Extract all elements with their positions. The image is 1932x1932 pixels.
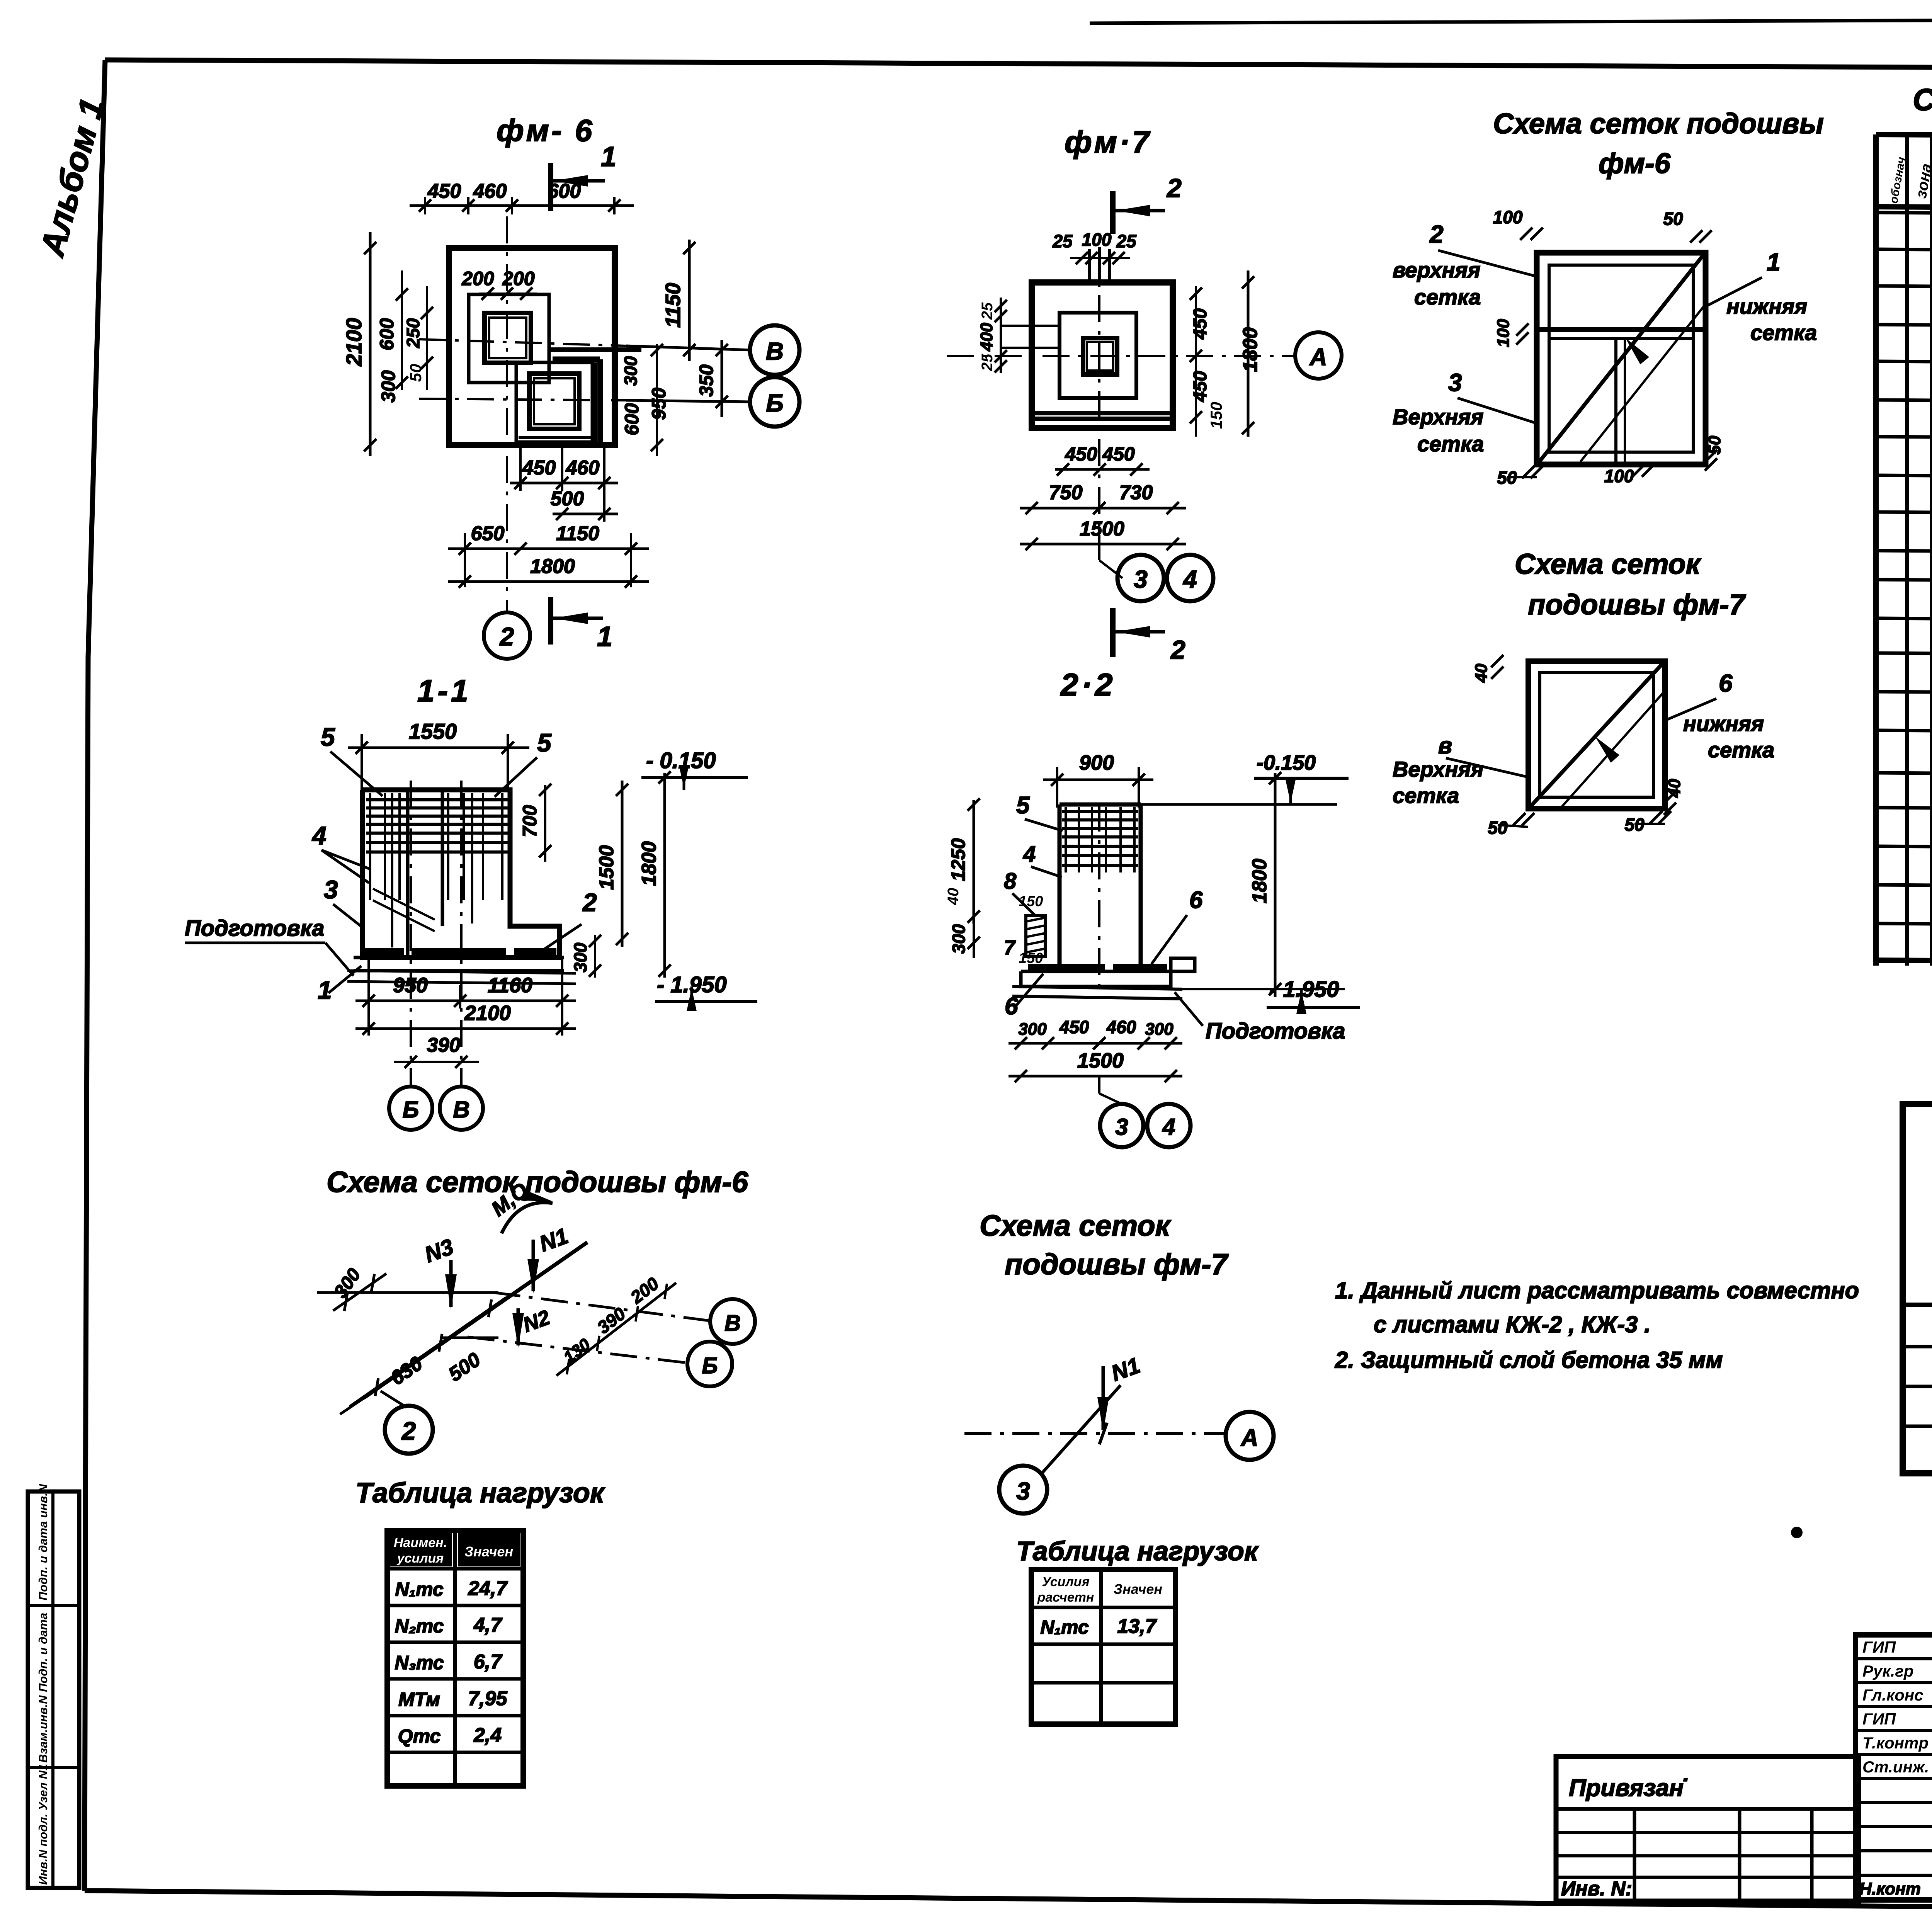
fm-7 axis circle 3 (1117, 555, 1164, 601)
section 2-2 bottom dimensions (1009, 1017, 1182, 1104)
section 1-1 body outline (347, 790, 576, 984)
svg-text:ГИП: ГИП (1862, 1638, 1896, 1656)
svg-text:сетка: сетка (1708, 738, 1774, 762)
svg-text:200: 200 (502, 268, 535, 289)
svg-text:фм·7: фм·7 (1065, 125, 1151, 159)
mesh scheme fm-7 dim ticks (1472, 655, 1684, 838)
fm-7 section mark 2 bottom (1113, 608, 1185, 665)
svg-text:фм- 6: фм- 6 (497, 113, 594, 148)
svg-text:950: 950 (648, 388, 670, 420)
svg-text:100: 100 (1082, 230, 1112, 250)
svg-text:Н.конт: Н.конт (1859, 1879, 1921, 1898)
mesh scheme fm-6 dim ticks (1493, 207, 1724, 488)
svg-text:900: 900 (1079, 751, 1114, 774)
section 1-1 axis dashed (411, 781, 461, 1086)
svg-text:450: 450 (1102, 443, 1135, 465)
section 1-1 right dimensions (519, 771, 671, 978)
svg-text:200: 200 (461, 268, 494, 289)
svg-text:N₁тс: N₁тс (395, 1578, 444, 1600)
svg-text:4: 4 (1023, 842, 1036, 867)
svg-text:150: 150 (1019, 950, 1043, 966)
svg-text:5: 5 (537, 728, 552, 757)
svg-text:450: 450 (1065, 443, 1097, 465)
svg-text:1800: 1800 (530, 555, 575, 578)
placement scheme fm-6 axes (317, 1242, 709, 1414)
mesh scheme fm-6 square (1537, 253, 1706, 464)
svg-text:300: 300 (1018, 1020, 1047, 1039)
svg-text:4: 4 (1182, 565, 1197, 593)
section 2-2 elevations (1141, 751, 1360, 1014)
fm-6 right dimensions (621, 240, 728, 456)
svg-text:300: 300 (1145, 1020, 1173, 1039)
svg-text:450: 450 (1190, 308, 1211, 340)
svg-text:5: 5 (1016, 792, 1030, 819)
svg-text:450: 450 (522, 457, 556, 479)
mesh scheme fm-6 labels (1393, 220, 1817, 456)
mesh scheme fm-7 labels (1393, 669, 1774, 808)
svg-text:нижняя: нижняя (1726, 294, 1807, 318)
svg-text:Подготовка: Подготовка (185, 916, 325, 941)
section 1-1 axis circle B (389, 1087, 432, 1130)
svg-text:N₃тс: N₃тс (395, 1652, 444, 1673)
svg-text:1160: 1160 (488, 974, 532, 997)
svg-text:2: 2 (401, 1417, 416, 1445)
svg-text:40: 40 (1665, 779, 1684, 798)
svg-text:2. Защитный слой бетона 35: 2. Защитный слой бетона 35 мм (1335, 1347, 1723, 1373)
svg-text:3: 3 (1448, 369, 1462, 396)
svg-text:Схема сеток подошвы фм-6: Схема сеток подошвы фм-6 (327, 1166, 748, 1199)
load table fm-6 (387, 1531, 523, 1786)
svg-text:2: 2 (1166, 173, 1182, 203)
svg-text:150: 150 (1019, 893, 1043, 910)
svg-text:А: А (1309, 344, 1327, 371)
svg-text:1800: 1800 (1248, 859, 1271, 903)
svg-text:600: 600 (376, 318, 398, 350)
svg-text:2,4: 2,4 (473, 1724, 502, 1747)
mesh scheme fm-7 square (1528, 661, 1665, 809)
fm-7 left dimensions (977, 298, 1060, 373)
svg-text:Подготовка: Подготовка (1206, 1019, 1345, 1044)
specification table headers (1887, 156, 1932, 205)
svg-text:Рук.гр: Рук.гр (1862, 1662, 1913, 1680)
svg-text:25: 25 (1052, 231, 1073, 251)
left margin stamp boxes (28, 1484, 79, 1888)
svg-text:460: 460 (473, 180, 507, 202)
svg-text:сетка: сетка (1750, 320, 1817, 345)
svg-text:Верхняя: Верхняя (1393, 757, 1483, 781)
svg-text:сетка: сетка (1417, 432, 1484, 456)
svg-text:7,95: 7,95 (468, 1687, 507, 1710)
fm-7 top dimensions (1052, 230, 1137, 264)
svg-text:6: 6 (1719, 669, 1733, 697)
svg-text:250: 250 (403, 318, 423, 348)
svg-text:2100: 2100 (342, 318, 366, 367)
svg-text:подошвы фм-7: подошвы фм-7 (1005, 1248, 1229, 1281)
fm-6 plan outline (449, 248, 641, 445)
fm-7 axis lines (947, 247, 1294, 560)
svg-text:Привязан̇: Привязан̇ (1569, 1775, 1687, 1801)
svg-text:Значен: Значен (1114, 1581, 1163, 1597)
placement scheme fm-6 force arrows (421, 1178, 571, 1348)
svg-text:1500: 1500 (1077, 1049, 1124, 1072)
svg-text:350: 350 (696, 364, 717, 397)
specification table grid (1876, 134, 1932, 966)
svg-text:1-1: 1-1 (417, 673, 471, 708)
svg-text:150: 150 (1207, 402, 1225, 429)
section 1-1 right elevations (641, 748, 757, 1011)
svg-text:1: 1 (318, 976, 332, 1004)
svg-text:5: 5 (321, 723, 335, 751)
svg-text:50: 50 (1663, 209, 1683, 229)
fm-7 axis circle A (1295, 332, 1342, 379)
svg-text:1250: 1250 (947, 838, 969, 881)
svg-text:25: 25 (979, 302, 996, 320)
svg-text:Qтс: Qтс (398, 1725, 441, 1747)
section 1-1 rebar (366, 793, 508, 947)
svg-text:300: 300 (570, 942, 590, 972)
placement scheme fm-7 force arrow N1 (1097, 1353, 1143, 1432)
svg-text:25: 25 (1116, 231, 1137, 251)
svg-text:2: 2 (499, 622, 514, 651)
title block signature table (1855, 1635, 1932, 1900)
placement scheme fm-7 circle A (1226, 1412, 1274, 1460)
placement scheme fm-6 circle B (687, 1342, 732, 1386)
svg-text:Взам.инв.N Подп. и дата: Взам.инв.N Подп. и дата (36, 1613, 50, 1763)
svg-text:N₁тс: N₁тс (1040, 1616, 1089, 1638)
svg-text:Инв. N:: Инв. N: (1561, 1878, 1632, 1900)
fm-6 top dimensions (410, 180, 634, 300)
svg-text:390: 390 (427, 1034, 461, 1056)
svg-text:МТм: МТм (398, 1689, 440, 1710)
steel table grid (1903, 1104, 1932, 1473)
section 1-1 top dimension 1550 (348, 719, 529, 792)
svg-text:1. Данный лист рассматривать с: 1. Данный лист рассматривать совместно (1335, 1277, 1859, 1303)
svg-text:300: 300 (378, 370, 399, 403)
section 1-1 leader labels (185, 821, 597, 1004)
svg-text:1: 1 (1767, 248, 1781, 276)
svg-text:500: 500 (551, 488, 584, 510)
svg-text:Таблица нагрузок: Таблица нагрузок (355, 1478, 605, 1509)
svg-text:сетка: сетка (1414, 285, 1481, 309)
svg-text:450: 450 (1059, 1017, 1089, 1037)
section 2-2 podgotovka label (1175, 992, 1345, 1044)
svg-text:в: в (1438, 733, 1452, 759)
svg-text:сетка: сетка (1393, 783, 1459, 808)
notes (1335, 1277, 1859, 1538)
svg-text:40: 40 (945, 888, 962, 906)
svg-text:100: 100 (1604, 466, 1634, 486)
section 2-2 top dimension 900 (1043, 751, 1153, 808)
svg-text:нижняя: нижняя (1683, 711, 1764, 736)
svg-text:Значен: Значен (464, 1544, 514, 1560)
svg-text:40: 40 (1472, 663, 1491, 683)
fm-6 bottom dimensions (448, 448, 649, 588)
svg-text:25: 25 (979, 354, 996, 371)
svg-text:24,7: 24,7 (468, 1577, 508, 1600)
svg-text:2: 2 (582, 888, 597, 917)
placement scheme fm-6 circle 2 (381, 1391, 433, 1454)
svg-text:7: 7 (1004, 937, 1016, 959)
svg-text:Спецификация: Спецификация (1913, 82, 1932, 117)
svg-text:Подп. и дата инв.N: Подп. и дата инв.N (36, 1484, 50, 1600)
section 1-1 axis circle V (440, 1087, 483, 1130)
svg-text:3: 3 (1115, 1114, 1128, 1140)
svg-text:усилия: усилия (396, 1551, 444, 1566)
svg-text:Б: Б (403, 1097, 419, 1122)
svg-text:-0.150: -0.150 (1257, 751, 1316, 774)
svg-text:с листами КЖ-2 , КЖ-3 .: с листами КЖ-2 , КЖ-3 . (1374, 1311, 1651, 1337)
svg-text:Наимен.: Наимен. (394, 1536, 447, 1550)
svg-text:4,7: 4,7 (473, 1614, 502, 1636)
fm-6 axis lines (419, 216, 751, 612)
svg-text:расчетн: расчетн (1037, 1590, 1094, 1605)
svg-text:Инв.N подл. Узел N1: Инв.N подл. Узел N1 (36, 1764, 50, 1885)
svg-text:В: В (766, 337, 784, 365)
fm-7 plan outline (1032, 247, 1173, 428)
fm-6 section mark 1 bottom (551, 597, 612, 652)
svg-text:Верхняя: Верхняя (1393, 405, 1483, 429)
svg-text:А: А (1240, 1425, 1259, 1451)
svg-text:2100: 2100 (464, 1002, 511, 1025)
section 2-2 axis circle 4 (1147, 1104, 1190, 1147)
svg-text:100: 100 (1493, 207, 1523, 227)
fm-7 bottom dimensions (1020, 443, 1186, 578)
svg-text:300: 300 (621, 356, 641, 386)
svg-text:Таблица нагрузок: Таблица нагрузок (1016, 1536, 1259, 1566)
svg-text:100: 100 (1494, 319, 1513, 347)
svg-text:950: 950 (393, 974, 428, 997)
section 1-1 mesh labels 5 (321, 723, 552, 797)
svg-text:600: 600 (548, 180, 581, 202)
svg-text:3: 3 (1016, 1477, 1030, 1505)
load table fm-7 (1031, 1570, 1175, 1724)
svg-text:2: 2 (1170, 635, 1185, 665)
svg-text:300: 300 (949, 924, 969, 954)
fm-6 axis circle 2 (484, 612, 530, 659)
svg-text:1150: 1150 (556, 522, 599, 545)
svg-text:50: 50 (406, 364, 425, 382)
svg-text:N₂тс: N₂тс (395, 1615, 444, 1637)
svg-text:1500: 1500 (595, 845, 618, 890)
svg-text:верхняя: верхняя (1393, 258, 1480, 282)
svg-text:450: 450 (427, 180, 461, 202)
svg-text:4: 4 (1162, 1114, 1175, 1140)
svg-text:3: 3 (324, 875, 338, 904)
placement scheme fm-7 circle 3 (999, 1466, 1047, 1514)
svg-text:450: 450 (1190, 371, 1211, 402)
svg-text:Б: Б (702, 1353, 718, 1378)
svg-text:650: 650 (471, 522, 505, 545)
section 2-2 side dimensions (945, 772, 1281, 997)
fm-6 axis circle B (750, 377, 799, 427)
section 2-2 body (1012, 804, 1195, 999)
svg-text:1550: 1550 (409, 719, 457, 743)
svg-text:3: 3 (1134, 565, 1148, 593)
svg-text:Т.контр: Т.контр (1862, 1734, 1929, 1752)
svg-text:Схема сеток: Схема сеток (1515, 548, 1702, 580)
svg-text:600: 600 (621, 403, 643, 435)
section 2-2 axis circle 3 (1100, 1104, 1143, 1147)
svg-text:700: 700 (519, 805, 541, 837)
section 1-1 bottom dimensions (355, 957, 576, 1068)
svg-text:750: 750 (1049, 481, 1083, 504)
svg-text:1: 1 (601, 141, 616, 172)
svg-text:подошвы фм-7: подошвы фм-7 (1528, 588, 1746, 621)
svg-text:400: 400 (977, 323, 996, 352)
svg-text:Схема сеток подошвы: Схема сеток подошвы (1493, 107, 1824, 139)
svg-text:50: 50 (1488, 818, 1508, 838)
fm-7 right dimensions (1190, 270, 1262, 437)
placement scheme fm-6 circle V (710, 1299, 755, 1344)
privyazan block (1556, 1757, 1859, 1901)
fm-7 section mark 2 top (1113, 173, 1182, 234)
svg-text:ГИП: ГИП (1862, 1710, 1896, 1728)
svg-text:Схема сеток: Схема сеток (980, 1209, 1172, 1242)
fm-6 left dimensions (342, 232, 433, 456)
svg-text:6,7: 6,7 (474, 1651, 502, 1673)
fm-6 section mark 1 top (551, 141, 616, 211)
placement scheme fm-6 dims (330, 1265, 676, 1406)
svg-text:4: 4 (311, 821, 327, 850)
section 2-2 rebar (1062, 804, 1138, 989)
svg-text:6: 6 (1189, 887, 1203, 913)
svg-text:13,7: 13,7 (1117, 1615, 1157, 1638)
svg-text:В: В (453, 1097, 469, 1122)
svg-text:730: 730 (1119, 481, 1153, 504)
svg-text:8: 8 (1004, 869, 1017, 894)
svg-text:фм-6: фм-6 (1599, 147, 1671, 179)
section 2-2 leader labels (1004, 792, 1203, 1020)
svg-text:1500: 1500 (1080, 518, 1124, 540)
fm-6 axis circle V (750, 325, 799, 375)
svg-text:2: 2 (1429, 220, 1444, 248)
svg-text:460: 460 (566, 457, 600, 479)
svg-text:В: В (724, 1311, 741, 1336)
svg-text:Гл.конс: Гл.конс (1862, 1686, 1923, 1704)
placement scheme fm-7 axes (964, 1385, 1225, 1473)
svg-text:1800: 1800 (638, 841, 660, 886)
svg-text:460: 460 (1106, 1017, 1136, 1037)
svg-text:1: 1 (597, 621, 612, 652)
svg-text:Б: Б (766, 389, 783, 417)
svg-text:2·2: 2·2 (1060, 667, 1116, 702)
svg-text:1150: 1150 (662, 283, 685, 328)
svg-text:1800: 1800 (1239, 327, 1262, 372)
svg-text:Ст.инж.: Ст.инж. (1862, 1758, 1929, 1776)
svg-text:Усилия: Усилия (1042, 1575, 1090, 1589)
fm-7 axis circle 4 (1167, 555, 1213, 601)
